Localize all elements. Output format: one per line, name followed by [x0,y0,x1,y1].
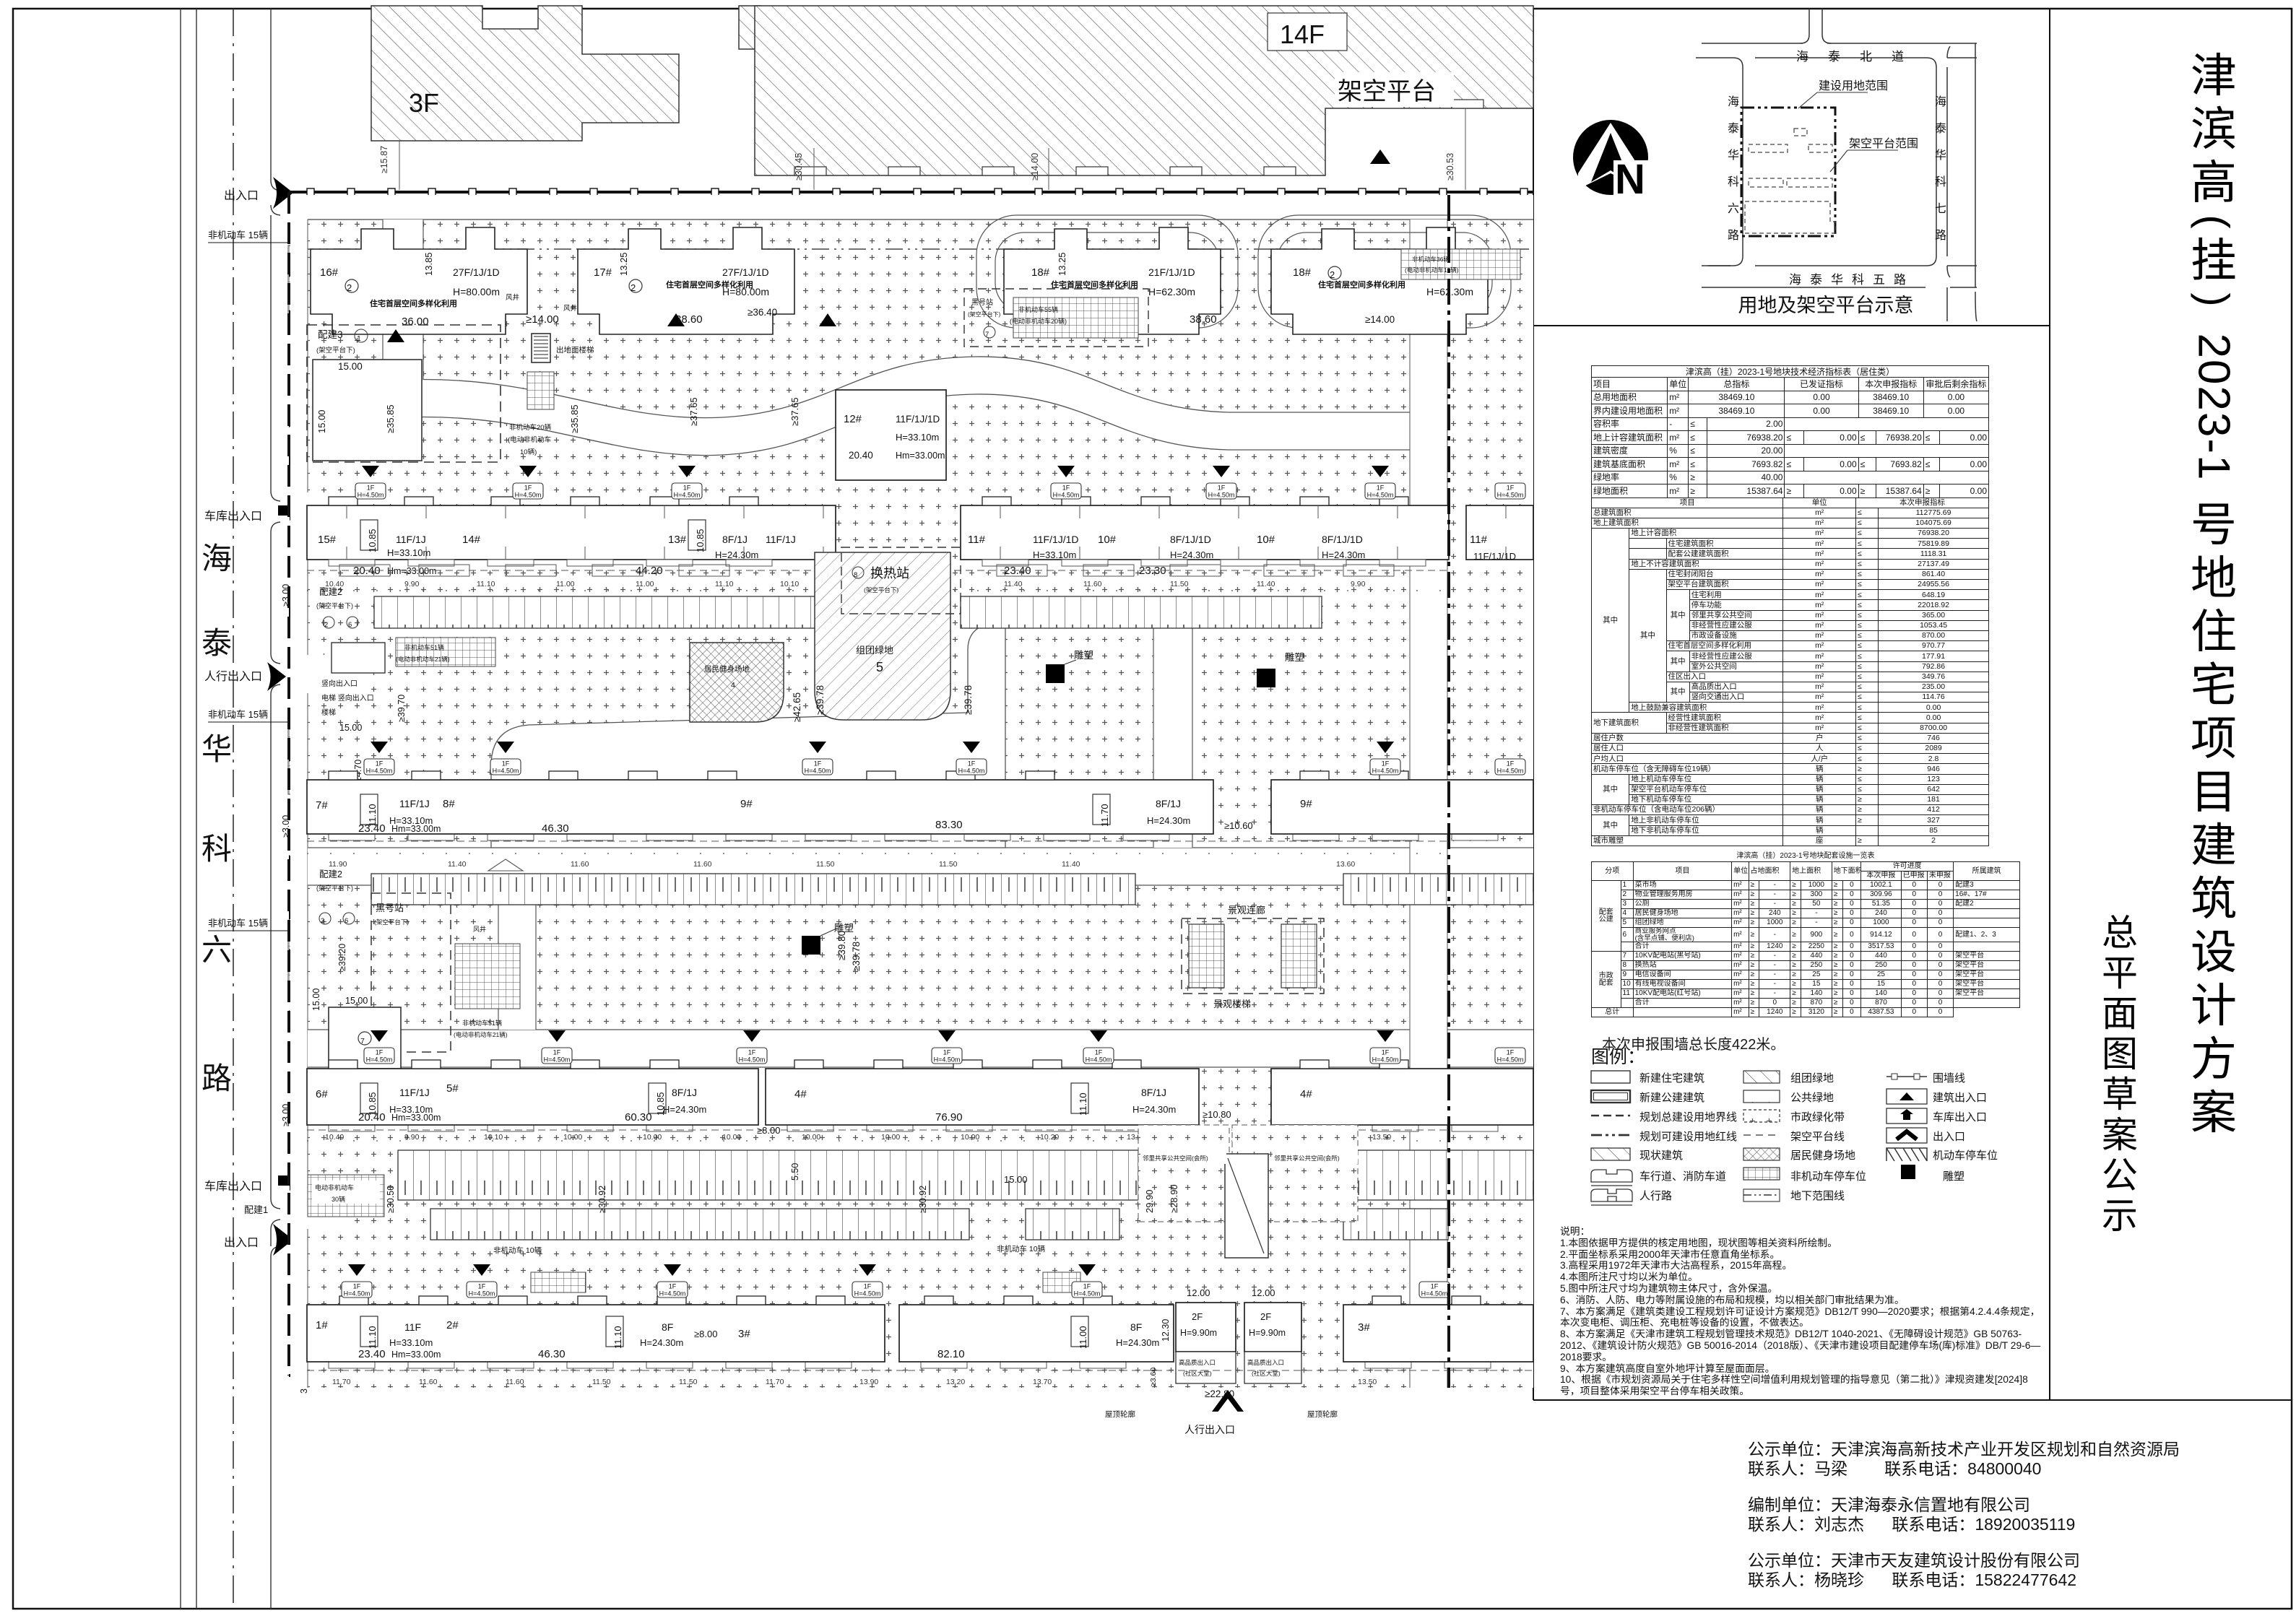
svg-text:海泰北道: 海泰北道 [1796,50,1923,64]
svg-text:H=4.50m: H=4.50m [358,492,384,499]
left roadside labels [204,177,306,1256]
svg-text:1F: 1F [669,1283,677,1290]
svg-text:≥3.60: ≥3.60 [1149,1368,1158,1386]
svg-text:7: 7 [985,331,989,339]
svg-text:H=4.50m: H=4.50m [1053,492,1080,499]
svg-text:10.85: 10.85 [367,529,378,552]
svg-text:路: 路 [1728,229,1739,242]
svg-text:H=24.30m: H=24.30m [1132,1104,1176,1115]
svg-text:屋顶轮廓: 屋顶轮廓 [1307,1409,1338,1419]
svg-text:人行出入口: 人行出入口 [204,670,262,683]
svg-text:1F: 1F [968,760,976,768]
svg-text:11.40: 11.40 [448,860,467,869]
svg-text:≥14.00: ≥14.00 [526,313,559,326]
svg-text:11F: 11F [404,1321,421,1333]
svg-text:13.85: 13.85 [423,252,434,276]
svg-text:≥30.92: ≥30.92 [918,1186,928,1213]
svg-text:4#: 4# [794,1088,807,1100]
svg-text:8F/1J: 8F/1J [1156,798,1181,809]
svg-text:居民健身场地: 居民健身场地 [704,664,750,674]
svg-text:H=4.50m: H=4.50m [1074,1290,1101,1298]
svg-text:2: 2 [324,621,328,629]
svg-text:H=9.90m: H=9.90m [1249,1328,1286,1338]
svg-text:H=4.50m: H=4.50m [674,492,701,499]
top road white strip [290,196,1533,220]
svg-text:非机动车 10辆: 非机动车 10辆 [493,1246,542,1255]
svg-text:1F: 1F [1095,1049,1103,1056]
svg-text:Hm=33.00m: Hm=33.00m [387,566,436,576]
central plaza white [491,622,1005,848]
svg-text:黑号站: 黑号站 [971,297,993,307]
svg-text:非机动车停车位: 非机动车停车位 [1790,1170,1866,1183]
svg-text:≥39.20: ≥39.20 [337,944,347,971]
svg-text:H=4.50m: H=4.50m [1367,492,1394,499]
svg-text:建筑出入口: 建筑出入口 [1933,1092,1987,1104]
svg-text:9.90: 9.90 [404,1133,420,1142]
svg-text:H=9.90m: H=9.90m [1180,1328,1217,1338]
svg-text:N: N [1615,156,1645,203]
svg-text:H=4.50m: H=4.50m [1372,1056,1399,1064]
svg-text:10辆): 10辆) [520,448,537,456]
svg-text:46.30: 46.30 [538,1348,566,1360]
svg-text:配建3: 配建3 [318,329,343,340]
svg-text:≥39.78: ≥39.78 [815,685,826,715]
svg-text:≥35.85: ≥35.85 [569,404,580,433]
svg-text:11#: 11# [968,534,986,546]
svg-text:H=4.50m: H=4.50m [1208,492,1235,499]
svg-text:3#: 3# [738,1328,750,1340]
svg-text:六: 六 [1728,202,1739,215]
svg-text:屋顶轮廓: 屋顶轮廓 [1105,1409,1135,1419]
svg-text:高品质出入口: 高品质出入口 [1247,1359,1284,1366]
非机动车20辆 box [527,372,554,409]
svg-text:11.60: 11.60 [571,860,589,869]
svg-text:17#: 17# [594,266,612,279]
svg-text:10.00: 10.00 [802,1133,820,1142]
svg-text:5.50: 5.50 [790,1163,800,1181]
svg-text:H=80.00m: H=80.00m [722,286,769,297]
svg-text:景观连廊: 景观连廊 [1228,905,1265,916]
3F block [371,6,679,141]
地下范围线 heavy dashdot at right of plan [1447,195,1450,1388]
entrance 1F boxes with triangles (all rows) [342,466,1525,1298]
svg-text:11F/1J: 11F/1J [766,534,796,545]
非机动车51辆 grid mid [396,638,495,666]
svg-text:H=4.50m: H=4.50m [515,492,542,499]
row4 [1591,1134,1630,1137]
svg-text:人行路: 人行路 [1639,1190,1672,1202]
svg-text:6#: 6# [316,1088,328,1100]
svg-text:5: 5 [876,660,883,674]
svg-text:12.00: 12.00 [1252,1287,1275,1298]
svg-text:竖向出入口: 竖向出入口 [321,679,358,688]
svg-text:10.10: 10.10 [780,580,799,588]
svg-text:(架空平台下): (架空平台下) [968,310,1001,318]
svg-text:11.90: 11.90 [329,860,347,869]
14F long strip [755,6,1533,175]
svg-text:≥39.80: ≥39.80 [836,931,847,960]
svg-text:4: 4 [731,681,735,690]
svg-text:1F: 1F [943,1049,951,1056]
svg-text:≥8.00: ≥8.00 [757,1125,780,1136]
svg-text:13#: 13# [668,534,687,546]
white roads [290,220,1533,1388]
svg-text:15.00: 15.00 [316,409,327,433]
svg-text:11.60: 11.60 [693,860,712,869]
svg-text:10.20: 10.20 [1040,1133,1059,1142]
garden strip below row3 [307,841,1449,869]
svg-text:(架空平台下): (架空平台下) [316,601,353,609]
svg-text:Hm=33.00m: Hm=33.00m [391,1113,441,1123]
row7 [1591,1189,1632,1201]
svg-text:(电动非机动车20辆): (电动非机动车20辆) [1010,317,1067,325]
svg-text:38.60: 38.60 [1190,313,1217,326]
svg-text:架空平台线: 架空平台线 [1790,1131,1845,1143]
svg-text:住宅首层空间多样化利用: 住宅首层空间多样化利用 [370,298,457,308]
row5 [1591,1148,1630,1160]
svg-text:≥37.65: ≥37.65 [688,397,699,426]
svg-text:非机动车 15辆: 非机动车 15辆 [208,918,268,929]
svg-text:非机动车 15辆: 非机动车 15辆 [208,230,268,240]
svg-text:5#: 5# [446,1082,459,1095]
svg-text:配建2: 配建2 [319,869,342,879]
svg-text:7: 7 [360,1037,365,1046]
svg-text:高品质出入口: 高品质出入口 [1179,1359,1216,1366]
svg-text:3#: 3# [1358,1321,1370,1334]
svg-text:12.00: 12.00 [1187,1287,1210,1298]
邻里共享 pockets [1138,1125,1229,1222]
svg-text:11.10: 11.10 [612,1326,623,1349]
svg-text:10#: 10# [1257,534,1275,546]
svg-text:≥3.00: ≥3.00 [281,584,291,607]
svg-text:(架空平台下): (架空平台下) [374,918,409,926]
svg-text:13.70: 13.70 [1033,1378,1052,1386]
svg-text:1F: 1F [683,484,691,492]
svg-text:2F: 2F [1260,1311,1271,1322]
svg-text:H=62.30m: H=62.30m [1148,286,1195,297]
bottom garden strip row5 [307,1370,916,1371]
vertical entry road top (36.00 entrance) [383,220,423,380]
svg-text:11.60: 11.60 [1083,580,1102,588]
svg-text:10.00: 10.00 [722,1133,741,1142]
svg-text:非机动车 15辆: 非机动车 15辆 [208,709,268,720]
svg-text:H=24.30m: H=24.30m [663,1104,706,1115]
svg-text:换热站: 换热站 [870,566,909,581]
svg-text:11F/1J/1D: 11F/1J/1D [1033,534,1079,545]
svg-text:10.40: 10.40 [325,1133,344,1142]
right vertical road near divider [1410,220,1447,1388]
svg-text:泰: 泰 [1728,122,1739,135]
parking stalls row mid [371,874,1135,905]
svg-text:14F: 14F [1280,19,1325,49]
svg-text:23.40: 23.40 [358,1348,386,1360]
svg-text:11.10: 11.10 [715,580,734,588]
svg-text:13.60: 13.60 [1336,860,1355,869]
svg-text:8F/1J/1D: 8F/1J/1D [1322,534,1363,545]
svg-text:15.00: 15.00 [338,361,363,372]
sculptures [1046,664,1065,683]
svg-text:11F/1J: 11F/1J [399,1087,430,1098]
svg-text:架空平台: 架空平台 [1338,78,1436,105]
svg-text:雕塑: 雕塑 [1074,650,1093,661]
svg-text:围墙线: 围墙线 [1933,1072,1965,1085]
svg-text:雕塑: 雕塑 [1943,1170,1964,1183]
svg-text:H=33.10m: H=33.10m [389,1337,433,1348]
svg-text:景观楼梯: 景观楼梯 [1213,999,1251,1009]
svg-text:11.60: 11.60 [506,1378,524,1386]
svg-text:11.10: 11.10 [1078,1092,1088,1116]
svg-text:9.90: 9.90 [404,580,420,588]
svg-text:H=4.50m: H=4.50m [1497,492,1524,499]
svg-text:≥30.45: ≥30.45 [794,153,804,181]
svg-text:非机动车51辆: 非机动车51辆 [404,643,444,651]
景观连廊 / 景观楼梯 [1182,918,1324,994]
svg-text:配建2: 配建2 [319,587,342,597]
svg-text:风井: 风井 [506,293,519,302]
svg-text:1F: 1F [376,1049,384,1056]
svg-text:7#: 7# [316,799,328,812]
svg-text:H=24.30m: H=24.30m [1322,549,1365,560]
svg-text:11.50: 11.50 [679,1378,698,1386]
svg-text:1F: 1F [376,760,384,768]
svg-text:科: 科 [1935,175,1946,188]
svg-text:82.10: 82.10 [937,1348,965,1360]
svg-text:27F/1J/1D: 27F/1J/1D [722,266,769,278]
svg-text:11F/1J: 11F/1J [396,534,426,545]
svg-text:83.30: 83.30 [935,819,963,831]
svg-text:H=4.50m: H=4.50m [493,768,519,775]
svg-text:≥42.65: ≥42.65 [792,692,802,722]
svg-text:Hm=33.00m: Hm=33.00m [896,451,945,461]
svg-text:华: 华 [1935,149,1946,162]
panel dividers [1533,9,1534,1400]
svg-text:建设用地范围: 建设用地范围 [1819,79,1888,92]
row3 [1591,1115,1630,1116]
svg-text:(电动非机动车: (电动非机动车 [508,435,551,444]
svg-text:≥30.53: ≥30.53 [1445,153,1455,181]
svg-text:30辆: 30辆 [332,1195,345,1203]
svg-text:海: 海 [1935,95,1946,108]
svg-text:≥35.85: ≥35.85 [385,404,396,433]
svg-text:≥39.70: ≥39.70 [397,695,407,722]
svg-text:华: 华 [202,732,232,766]
非机动车36辆 top right [1401,249,1520,279]
svg-text:七: 七 [1935,202,1946,215]
svg-text:车库出入口: 车库出入口 [1933,1111,1987,1124]
svg-text:出入口: 出入口 [224,1236,259,1249]
svg-text:(电动非机动车21辆): (电动非机动车21辆) [454,1031,508,1038]
svg-text:11.70: 11.70 [1099,804,1110,827]
north arrow [1573,120,1651,203]
svg-text:H=24.30m: H=24.30m [640,1337,683,1348]
组团绿地 [815,552,950,720]
svg-text:10.85: 10.85 [695,529,706,552]
svg-text:Hm=33.00m: Hm=33.00m [391,1350,441,1360]
svg-text:海: 海 [1728,95,1739,108]
svg-text:11.10: 11.10 [477,580,495,588]
svg-text:邻里共享公共空间(会所): 邻里共享公共空间(会所) [1143,1155,1208,1162]
svg-text:≥28.90: ≥28.90 [1169,1184,1179,1213]
svg-text:1F: 1F [1062,484,1070,492]
svg-text:车库出入口: 车库出入口 [204,510,262,523]
svg-text:组团绿地: 组团绿地 [856,645,893,656]
svg-text:H=4.50m: H=4.50m [854,1290,881,1298]
svg-text:11.40: 11.40 [1004,580,1023,588]
svg-text:新建住宅建筑: 新建住宅建筑 [1639,1072,1704,1085]
svg-text:H=24.30m: H=24.30m [715,549,758,560]
svg-text:规划总建设用地界线: 规划总建设用地界线 [1639,1111,1737,1124]
svg-text:用地及架空平台示意: 用地及架空平台示意 [1738,295,1914,316]
svg-text:11.70: 11.70 [766,1378,784,1386]
svg-text:2: 2 [1330,269,1335,280]
svg-text:(电动非机动车19辆): (电动非机动车19辆) [1405,266,1459,274]
svg-text:(电动非机动车21辆): (电动非机动车21辆) [396,656,450,663]
svg-text:9#: 9# [1300,798,1312,810]
svg-text:Hm=33.00m: Hm=33.00m [391,824,441,834]
svg-text:13.50: 13.50 [1358,1378,1377,1386]
svg-text:现状建筑: 现状建筑 [1639,1150,1683,1162]
svg-text:H=4.50m: H=4.50m [739,1056,766,1064]
svg-text:3: 3 [321,917,324,925]
svg-text:H=4.50m: H=4.50m [469,1290,495,1298]
svg-text:11F/1J/1D: 11F/1J/1D [896,414,940,425]
svg-text:11.50: 11.50 [1170,580,1189,588]
svg-text:出地面楼梯: 出地面楼梯 [556,345,594,355]
svg-text:H=24.30m: H=24.30m [1147,815,1190,826]
svg-text:电梯 竖向出入口: 电梯 竖向出入口 [321,693,374,703]
svg-text:出入口: 出入口 [1933,1131,1965,1143]
svg-text:1F: 1F [1507,484,1515,492]
svg-text:1F: 1F [1507,760,1515,768]
svg-text:8: 8 [854,571,857,579]
entry pockets from left [290,492,348,531]
svg-text:1F: 1F [1382,1049,1390,1056]
svg-text:13.90: 13.90 [859,1378,878,1386]
svg-text:车库出入口: 车库出入口 [204,1180,262,1193]
svg-text:电动非机动车: 电动非机动车 [315,1183,354,1191]
svg-text:黑号站: 黑号站 [376,903,404,913]
svg-text:邻里共享公共空间(会所): 邻里共享公共空间(会所) [1274,1155,1340,1162]
svg-text:8F: 8F [662,1321,673,1333]
svg-text:人行出入口: 人行出入口 [1184,1424,1235,1435]
svg-text:16#: 16# [320,266,339,279]
svg-text:6: 6 [345,917,348,925]
svg-text:1F: 1F [1431,1283,1439,1290]
svg-text:H=80.00m: H=80.00m [453,286,500,297]
人行出入口 bottom [1212,1390,1244,1412]
svg-text:11.50: 11.50 [816,860,835,869]
svg-text:≥37.65: ≥37.65 [789,397,800,426]
parking stalls row under row2 garden [374,596,822,628]
svg-text:H=4.50m: H=4.50m [805,768,831,775]
svg-text:11.40: 11.40 [1257,580,1275,588]
svg-text:9.90: 9.90 [1351,580,1366,588]
svg-text:2#: 2# [446,1319,459,1331]
svg-text:15.00: 15.00 [345,996,368,1006]
svg-text:11.40: 11.40 [1062,860,1080,869]
svg-text:海: 海 [202,542,232,575]
svg-text:23.40: 23.40 [358,822,386,835]
svg-text:六: 六 [202,933,232,967]
svg-text:≥10.80: ≥10.80 [1203,1109,1231,1120]
svg-text:12.30: 12.30 [1161,1319,1171,1342]
svg-text:楼梯: 楼梯 [321,708,336,717]
svg-text:15#: 15# [318,534,337,546]
svg-text:科: 科 [202,832,232,866]
svg-text:29.90: 29.90 [1144,1189,1155,1213]
ring roads around right tower clusters [976,215,1511,328]
S road between row1 and row2 [404,375,1449,437]
svg-text:1F: 1F [1218,484,1226,492]
svg-text:1F: 1F [748,1049,756,1056]
svg-text:机动车停车位: 机动车停车位 [1933,1150,1998,1162]
svg-text:风井: 风井 [563,304,577,313]
svg-text:10#: 10# [1098,534,1117,546]
row6 [1591,1170,1632,1182]
row2 [1591,1090,1630,1103]
svg-text:≥36.40: ≥36.40 [748,307,777,318]
svg-text:1F: 1F [553,1049,561,1056]
svg-text:8F/1J: 8F/1J [1141,1087,1166,1098]
svg-text:泰: 泰 [202,626,232,660]
svg-text:3F: 3F [409,88,439,118]
svg-text:11F/1J/1D: 11F/1J/1D [1473,551,1516,562]
svg-text:2F: 2F [1192,1311,1203,1322]
svg-text:10.00: 10.00 [563,1133,582,1142]
svg-text:1: 1 [357,334,361,343]
svg-text:非机动车20辆: 非机动车20辆 [509,423,552,432]
svg-text:(架空平台下): (架空平台下) [316,884,353,892]
svg-text:11.00: 11.00 [556,580,575,588]
svg-text:21F/1J/1D: 21F/1J/1D [1148,266,1195,278]
svg-text:11.50: 11.50 [592,1378,611,1386]
svg-text:8F/1J: 8F/1J [672,1087,697,1098]
svg-text:13.25: 13.25 [618,252,629,276]
配建3 area [307,325,800,462]
svg-text:公共绿地: 公共绿地 [1790,1092,1834,1104]
svg-text:(架空平台下): (架空平台下) [864,586,898,594]
svg-text:规划可建设用地红线: 规划可建设用地红线 [1639,1131,1737,1143]
svg-text:华: 华 [1728,149,1739,162]
svg-text:H=33.10m: H=33.10m [896,432,939,443]
非机动车55辆 box top middle [964,289,1148,347]
svg-text:H=4.50m: H=4.50m [1372,768,1399,775]
svg-text:H=24.30m: H=24.30m [1170,549,1213,560]
svg-text:8F: 8F [1130,1321,1142,1333]
svg-text:雕塑: 雕塑 [1285,652,1304,663]
svg-text:15.00: 15.00 [1004,1174,1028,1185]
电动非机动车30辆 [308,1175,384,1217]
svg-text:≥30.50: ≥30.50 [386,1186,396,1213]
long parking rows bottom [398,1150,1138,1200]
svg-text:4#: 4# [1300,1088,1312,1100]
svg-text:非机动车36辆: 非机动车36辆 [1412,256,1450,263]
svg-text:≥15.87: ≥15.87 [379,146,389,173]
svg-text:1F: 1F [478,1283,486,1290]
svg-text:20.40: 20.40 [358,1111,386,1124]
svg-text:配建1: 配建1 [244,1204,268,1215]
svg-text:≥3.00: ≥3.00 [281,815,291,838]
svg-text:住宅首层空间多样化利用: 住宅首层空间多样化利用 [1318,279,1405,290]
svg-text:10.00: 10.00 [881,1133,900,1142]
svg-text:13.50: 13.50 [1372,1133,1391,1142]
svg-text:1F: 1F [502,760,510,768]
svg-text:2: 2 [347,282,352,293]
svg-text:76.90: 76.90 [935,1111,963,1124]
svg-text:≥14.00: ≥14.00 [1365,314,1395,325]
svg-text:(架空平台下): (架空平台下) [316,346,355,355]
svg-text:科: 科 [1728,175,1739,188]
